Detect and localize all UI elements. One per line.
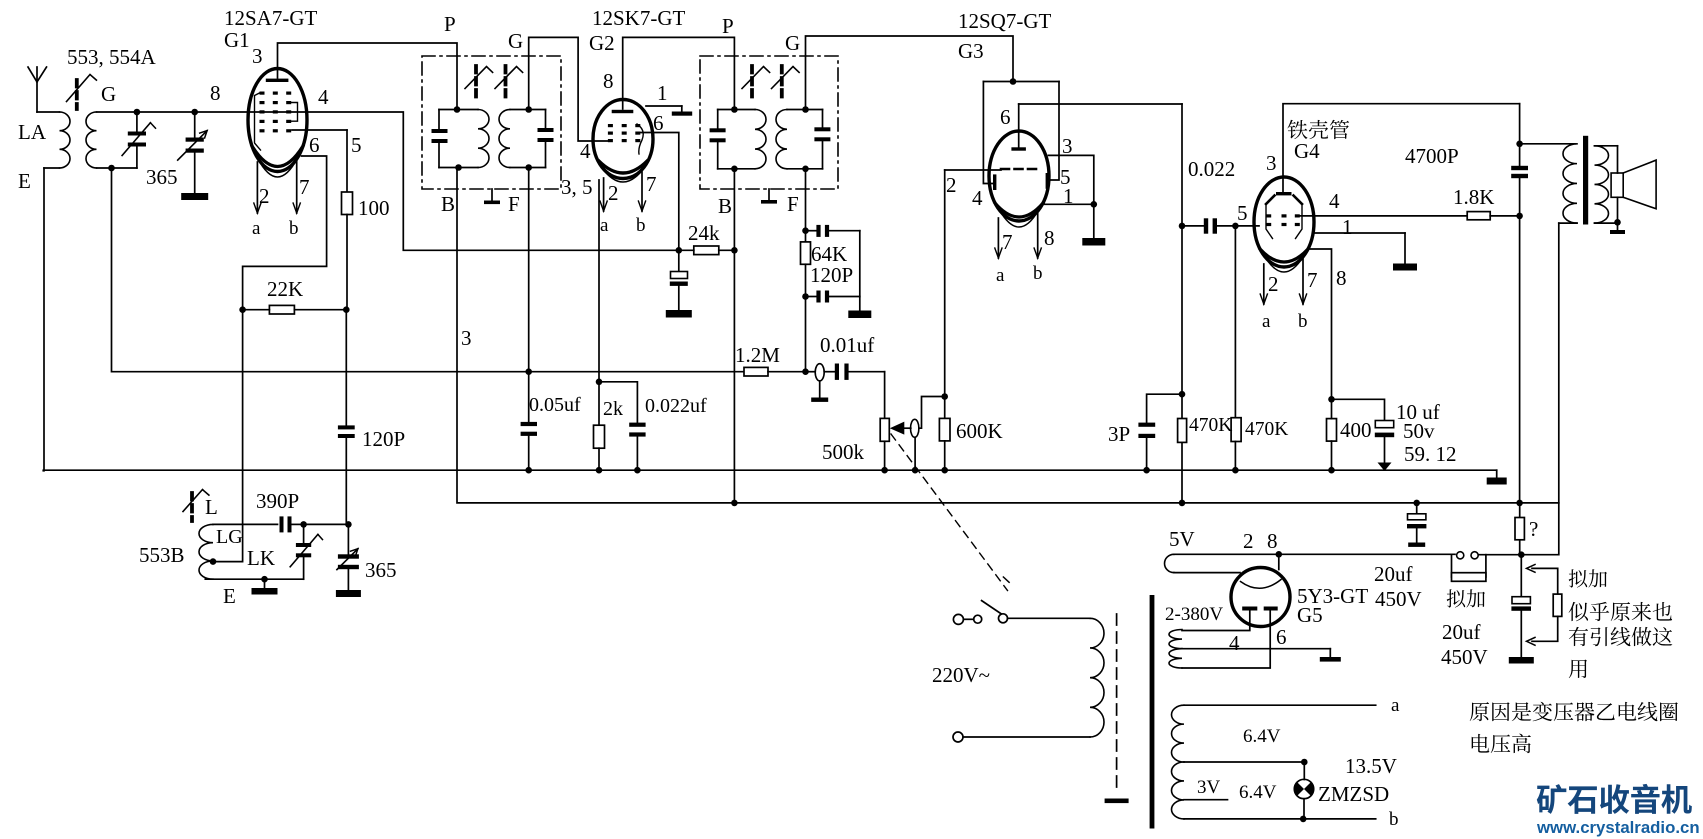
junction dot — [634, 467, 641, 474]
5V winding — [1165, 554, 1240, 572]
wire osc bottom — [205, 578, 303, 580]
junction dot — [1143, 467, 1150, 474]
svg-text:3, 5: 3, 5 — [561, 175, 593, 199]
junction dot T1 F — [525, 164, 532, 171]
grommet symbol — [806, 364, 825, 397]
filament winding 6.4V a — [1172, 705, 1376, 762]
T1 secondary tank — [499, 110, 554, 168]
junction dot 24k left — [676, 247, 683, 254]
tube G4 top cap — [1276, 178, 1292, 196]
svg-text:P: P — [722, 14, 734, 38]
capacitor 4700P — [1511, 166, 1528, 216]
svg-text:3P: 3P — [1108, 422, 1130, 446]
primary bottom terminal — [953, 732, 963, 742]
wire primary bottom to B+ bus3 — [1558, 223, 1560, 555]
svg-text:2: 2 — [1268, 272, 1279, 296]
svg-text:24k: 24k — [688, 221, 720, 245]
wire to 10uf — [1332, 399, 1385, 420]
wire 120P right to ground — [859, 231, 861, 311]
tube G1 bottom dome arcs — [252, 146, 303, 167]
resistor 64K — [801, 231, 811, 297]
resistor 1.8K — [1467, 212, 1519, 220]
wire F to 0.05uf — [528, 372, 530, 422]
tube U4 output G4 envelope — [1254, 177, 1314, 267]
junction dot G4 grid — [1232, 223, 1239, 230]
IF transformer T2 shield box — [700, 56, 838, 189]
ground pin1 G4 — [1393, 264, 1417, 271]
junction dot G3 top — [1010, 78, 1017, 85]
svg-text:6.4V: 6.4V — [1239, 782, 1277, 803]
svg-text:2-380V: 2-380V — [1165, 604, 1223, 625]
junction dot — [802, 227, 809, 234]
variable capacitor 365 osc — [337, 524, 359, 590]
junction dot lamp bottom — [1300, 816, 1307, 823]
resistor 1.2M — [744, 367, 806, 376]
T1 primary tank — [432, 110, 490, 168]
wire G line to tube G1 pin8 — [97, 111, 249, 113]
pilot lamp ZMZSD — [1294, 762, 1314, 819]
wire pin 8 cathode — [1310, 249, 1332, 399]
svg-text:7: 7 — [1002, 230, 1013, 254]
junction dot grid — [941, 393, 948, 400]
svg-text:470K: 470K — [1245, 419, 1288, 440]
svg-text:7: 7 — [1307, 268, 1318, 292]
junction dot — [596, 467, 603, 474]
capacitor 0.022uf — [629, 423, 645, 471]
junction dot LG tap — [210, 558, 217, 565]
adjustable core symbol 553,554A — [75, 80, 79, 109]
transformer core bar — [1150, 595, 1155, 829]
ground 365 osc — [336, 590, 361, 597]
junction dot — [1413, 500, 1420, 507]
tube G4 plate outline — [1266, 196, 1302, 239]
ground 20uf bus3 — [1509, 657, 1534, 664]
tube G2 bottom dome arcs — [599, 161, 647, 173]
capacitor 120P osc — [338, 310, 355, 525]
adjustable core symbol T1 secondary — [504, 66, 508, 97]
svg-text:F: F — [787, 192, 799, 216]
proposed resistor bridge — [1452, 555, 1486, 582]
heater pin 7 arrow — [296, 158, 298, 213]
junction dot speaker gnd — [1614, 219, 1621, 226]
svg-text:0.022: 0.022 — [1188, 157, 1235, 181]
svg-text:470K: 470K — [1189, 415, 1232, 436]
capacitor 120P top — [806, 225, 860, 237]
wire pin 3 plate to IFT1 P — [278, 43, 458, 110]
switch pole — [982, 601, 1008, 623]
svg-text:b: b — [1389, 809, 1399, 830]
tube G3 diode plate right — [1046, 173, 1049, 189]
svg-text:220V~: 220V~ — [932, 663, 990, 687]
resistor 470K det — [1178, 419, 1187, 443]
ground 20uf bus2 — [1408, 543, 1425, 547]
HV center tap ground — [1182, 649, 1341, 662]
wire pin6 line down — [1181, 104, 1183, 503]
resistor 470K grid — [1231, 418, 1241, 471]
svg-text:1.2M: 1.2M — [735, 343, 780, 367]
tube G4 bottom dome arcs — [1260, 249, 1308, 262]
junction dot T1 B — [455, 164, 462, 171]
resistor 24k — [679, 246, 735, 255]
coil LG oscillator — [199, 524, 213, 579]
tube G5 filament arc — [1241, 580, 1282, 589]
ground T2 — [761, 189, 777, 204]
svg-text:3V: 3V — [1197, 777, 1221, 798]
junction dot — [802, 293, 809, 300]
svg-text:8: 8 — [1044, 226, 1055, 250]
ground bus termination — [1487, 470, 1507, 484]
svg-text:E: E — [223, 584, 236, 608]
junction dot T1 P — [454, 106, 461, 113]
svg-text:4: 4 — [580, 139, 591, 163]
wire bus3 mid — [1479, 554, 1521, 556]
capacitor 0.022 coupling — [1182, 218, 1235, 233]
label sihu — [1569, 602, 1672, 621]
junction dot coil bottom — [108, 165, 115, 172]
svg-text:1: 1 — [657, 81, 668, 105]
wire pin 2 grid — [945, 169, 1001, 171]
wire pin 4 to screen rail — [306, 112, 679, 250]
wire T2 B down to bus — [733, 169, 735, 503]
adjustable core symbol L — [190, 493, 194, 521]
junction dot — [1516, 213, 1523, 220]
wire cathode branch — [599, 382, 637, 423]
pot wiper arrow — [890, 422, 905, 435]
junction dot — [191, 109, 198, 116]
svg-text:450V: 450V — [1375, 587, 1422, 611]
svg-text:3: 3 — [1266, 151, 1277, 175]
wire T1 B down to B+ bus — [457, 168, 1559, 503]
transformer dashed core — [1116, 614, 1118, 793]
junction dot — [912, 467, 919, 474]
tube G3 diode plate left — [993, 174, 996, 190]
svg-text:www.crystalradio.cn: www.crystalradio.cn — [1536, 818, 1700, 837]
svg-text:20uf: 20uf — [1442, 620, 1481, 644]
label yong — [1569, 659, 1587, 678]
svg-text:2: 2 — [1243, 529, 1254, 553]
wire grid down to 470K — [1234, 226, 1236, 418]
tube G2 grid dots — [608, 124, 640, 142]
svg-text:B: B — [441, 192, 455, 216]
svg-text:G5: G5 — [1297, 603, 1323, 627]
wire pin 5 — [292, 129, 347, 131]
heater pin 8 arrow G3 — [1037, 212, 1039, 258]
svg-text:553B: 553B — [139, 543, 185, 567]
svg-text:b: b — [289, 218, 299, 239]
ground T1 — [484, 189, 500, 204]
junction dot — [345, 521, 352, 528]
svg-text:b: b — [1298, 311, 1308, 332]
svg-text:600K: 600K — [956, 419, 1003, 443]
B+ bus3 right corner — [1521, 554, 1557, 556]
svg-text:390P: 390P — [256, 489, 299, 513]
svg-text:4: 4 — [318, 85, 329, 109]
tube G5 plates — [1242, 607, 1278, 611]
svg-text:G4: G4 — [1294, 139, 1320, 163]
switch terminals — [953, 614, 981, 624]
svg-text:L: L — [205, 495, 218, 519]
wire pin 1 shell — [646, 106, 692, 116]
heater pin 2 arrow — [256, 162, 258, 213]
svg-text:3: 3 — [252, 44, 263, 68]
svg-text:3: 3 — [461, 326, 472, 350]
svg-text:G: G — [508, 29, 523, 53]
switch lever tick — [1003, 577, 1009, 582]
svg-text:6.4V: 6.4V — [1243, 726, 1281, 747]
junction dot — [134, 109, 141, 116]
svg-text:G: G — [101, 82, 116, 106]
svg-text:2k: 2k — [603, 398, 623, 420]
junction dot — [1328, 467, 1335, 474]
wire plate left to HV top — [1182, 611, 1250, 631]
svg-text:8: 8 — [1267, 529, 1278, 553]
capacitor screen bypass electrolytic — [670, 250, 688, 310]
svg-text:?: ? — [1529, 517, 1538, 541]
junction dot — [881, 467, 888, 474]
svg-text:8: 8 — [210, 81, 221, 105]
wire antenna to coil LA — [37, 111, 60, 113]
capacitor 20uf bus3 electrolytic — [1511, 555, 1531, 657]
filament winding 6.4V b — [1172, 762, 1376, 819]
tube G3 top cap pin6 — [1011, 104, 1026, 151]
junction dot E — [261, 576, 268, 583]
wire grommet down to bus — [914, 437, 916, 470]
tube G1 internal lead left — [255, 93, 261, 150]
junction dot pin8 — [1276, 551, 1283, 558]
svg-text:G: G — [785, 31, 800, 55]
wire 22K left down to osc coil tap — [213, 310, 243, 562]
wire cathode 3,5 down — [598, 180, 600, 382]
svg-text:5: 5 — [351, 133, 362, 157]
junction dot lamp top — [1301, 759, 1308, 766]
B+ screen bus dots — [731, 500, 738, 507]
output transformer secondary — [1595, 146, 1618, 223]
junction dot — [1232, 467, 1239, 474]
T2 secondary tank — [776, 110, 830, 169]
heater pin 2 arrow G2 — [603, 178, 605, 211]
junction dot — [1328, 396, 1335, 403]
svg-text:2: 2 — [608, 181, 619, 205]
wire pin 8 through tube — [249, 111, 307, 113]
svg-text:ZMZSD: ZMZSD — [1318, 782, 1389, 806]
svg-text:4: 4 — [1329, 189, 1340, 213]
junction dot T1 G — [525, 106, 532, 113]
svg-text:0.05uf: 0.05uf — [529, 394, 581, 416]
tube G1 grid dots — [260, 92, 292, 133]
shaft grommet ellipse — [911, 419, 919, 437]
output transformer core — [1583, 136, 1588, 225]
junction dot T2 B — [731, 166, 738, 173]
svg-text:59. 12: 59. 12 — [1404, 442, 1457, 466]
tube G1 internal bracket right — [292, 103, 298, 122]
junction dot 22K left — [239, 306, 246, 313]
IF transformer T1 shield box — [422, 56, 561, 189]
junction dot — [1516, 141, 1523, 148]
svg-text:100: 100 — [358, 196, 390, 220]
wire pin 4 plate out — [1300, 215, 1467, 217]
labels nijia right — [1569, 569, 1607, 587]
tube U2 12SK7-GT G2 envelope — [593, 100, 653, 179]
capacitor 0.05uf — [521, 422, 537, 470]
ground speaker — [1610, 223, 1625, 234]
junction dot AVC — [525, 368, 532, 375]
wire T1 F down — [528, 168, 530, 372]
svg-text:400: 400 — [1340, 418, 1372, 442]
svg-text:5V: 5V — [1169, 527, 1195, 551]
ground transformer core — [1105, 799, 1129, 804]
primary winding 220V — [963, 618, 1104, 737]
coil LA primary — [44, 112, 70, 168]
speaker — [1611, 146, 1656, 223]
svg-text:365: 365 — [365, 558, 397, 582]
svg-text:2: 2 — [259, 184, 270, 208]
wire to volume pot — [884, 372, 886, 419]
heater pin 7 arrow G3 — [997, 218, 999, 258]
junction dot cathode — [596, 379, 603, 386]
wire pin 6 — [243, 156, 327, 310]
svg-text:a: a — [1262, 311, 1271, 332]
tube G2 top cap — [612, 100, 634, 114]
label dianyagao — [1472, 734, 1531, 754]
junction dot on B bus — [1179, 500, 1186, 507]
junction dot — [1516, 500, 1523, 507]
T2 primary tank — [710, 110, 766, 169]
svg-text:0.022uf: 0.022uf — [645, 395, 707, 417]
svg-text:500k: 500k — [822, 440, 865, 464]
wire T1 G to G2 pin4 — [529, 37, 609, 141]
svg-text:LK: LK — [247, 546, 275, 570]
svg-text:7: 7 — [299, 175, 310, 199]
wire grid into G4 — [1235, 225, 1259, 227]
wire pin 1 to ground — [1314, 233, 1405, 263]
svg-text:6: 6 — [1276, 625, 1287, 649]
heater pin 7 arrow G2 — [641, 172, 643, 211]
wire E down to ground bus — [42, 168, 45, 471]
wire pin 6 out top — [1019, 103, 1182, 105]
trimmer capacitor antenna — [112, 112, 156, 168]
wire G3 top from T2 G — [806, 36, 1014, 110]
wire G3 diode plate box — [983, 82, 1059, 184]
wire plate right to HV bottom — [1182, 611, 1270, 669]
capacitor 0.01uf — [824, 364, 884, 380]
wire to 365 osc — [304, 523, 349, 525]
svg-text:2: 2 — [946, 173, 957, 197]
ground 365 RF — [181, 193, 208, 200]
svg-text:P: P — [444, 12, 456, 36]
tube G3 bottom dome arcs — [995, 203, 1043, 217]
svg-text:120P: 120P — [362, 427, 405, 451]
svg-text:G3: G3 — [958, 39, 984, 63]
junction dot 22K right — [343, 306, 350, 313]
resistor unknown ? — [1515, 503, 1524, 555]
svg-text:a: a — [1391, 695, 1400, 716]
svg-text:553, 554A: 553, 554A — [67, 45, 157, 69]
svg-text:12SA7-GT: 12SA7-GT — [224, 6, 318, 30]
proposed bleeder resistor right — [1527, 565, 1562, 646]
svg-text:a: a — [252, 218, 261, 239]
junction dot 390P right — [300, 521, 307, 528]
svg-text:6: 6 — [309, 133, 320, 157]
junction dot T2 F — [802, 166, 809, 173]
resistor 2k — [594, 382, 605, 470]
svg-text:3: 3 — [1062, 134, 1073, 158]
label yuanyin — [1470, 702, 1678, 722]
labels nijia 20uf 450V — [1447, 589, 1485, 607]
wire pin 3 up and right — [1283, 104, 1520, 178]
resistor 22K — [243, 305, 347, 314]
svg-text:1.8K: 1.8K — [1453, 185, 1494, 209]
svg-text:a: a — [996, 265, 1005, 286]
coil LA secondary — [86, 112, 112, 168]
svg-text:6: 6 — [653, 111, 664, 135]
svg-text:F: F — [508, 192, 520, 216]
tube G4 grid dots — [1266, 214, 1300, 226]
wire AVC down from coil bottom — [112, 168, 745, 372]
junction dot T2 P — [731, 106, 738, 113]
variable capacitor LK — [290, 524, 322, 579]
wire pin2 down — [944, 170, 946, 397]
junction dot T2 G — [802, 106, 809, 113]
adjustable core symbol T1 primary — [474, 66, 478, 97]
adjustable core symbol T2 primary — [750, 66, 754, 97]
junction dot AVC right — [802, 368, 809, 375]
ground bus — [43, 469, 1496, 471]
tube G3 grid dashed — [1001, 168, 1036, 171]
heater pin 2 arrow G4 — [1263, 264, 1265, 304]
svg-text:365: 365 — [146, 165, 178, 189]
output transformer primary — [1520, 144, 1577, 223]
wire pin 1 — [1045, 203, 1094, 205]
junction dot 24k right — [731, 247, 738, 254]
svg-text:7: 7 — [646, 172, 657, 196]
svg-text:20uf: 20uf — [1374, 562, 1413, 586]
svg-text:22K: 22K — [267, 277, 303, 301]
svg-text:1: 1 — [1063, 184, 1074, 208]
junction dot — [525, 467, 532, 474]
resistor 400 — [1327, 399, 1337, 470]
svg-text:b: b — [1033, 263, 1043, 284]
wire 390P line — [213, 523, 278, 525]
svg-text:G1: G1 — [224, 28, 250, 52]
wire B+ node down — [1519, 104, 1521, 166]
junction dot — [1518, 551, 1525, 558]
wire wiper up to G3 grid line — [919, 397, 945, 429]
junction dot 0.022 branch — [1179, 223, 1186, 230]
resistor 600K — [939, 397, 950, 471]
svg-text:0.01uf: 0.01uf — [820, 333, 874, 357]
label youyinxian — [1569, 627, 1672, 646]
capacitor 10uf electrolytic — [1375, 421, 1394, 463]
wire pin 8 down into tube — [1278, 554, 1280, 569]
capacitor 390P — [280, 516, 304, 532]
wire pins 3,5 — [1049, 155, 1094, 237]
svg-text:LG: LG — [216, 526, 243, 548]
resistor 100 — [342, 130, 353, 309]
tube U5 5Y3-GT G5 envelope — [1231, 568, 1290, 627]
svg-text:1: 1 — [1342, 215, 1353, 239]
capacitor 20uf bus2 electrolytic — [1407, 503, 1426, 542]
capacitor 120P bottom — [806, 291, 860, 303]
wire pin 6 screen — [639, 133, 679, 249]
junction dot 3P branch — [1179, 391, 1186, 398]
svg-text:4: 4 — [972, 186, 983, 210]
junction dot — [1091, 201, 1098, 208]
mechanical link dashed — [891, 434, 1008, 591]
tube U1 12SA7-GT G1 envelope — [248, 69, 307, 172]
svg-text:E: E — [18, 169, 31, 193]
svg-text:8: 8 — [1336, 266, 1347, 290]
heater pin 7 arrow G4 — [1302, 258, 1304, 304]
